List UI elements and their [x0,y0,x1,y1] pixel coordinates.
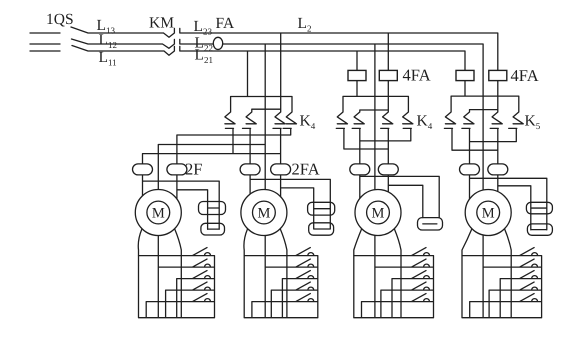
svg-text:M: M [482,205,495,221]
svg-text:1QS: 1QS [46,11,74,28]
svg-text:M: M [152,205,165,221]
svg-text:M: M [372,205,385,221]
svg-text:M: M [257,205,270,221]
svg-text:4FA: 4FA [403,66,431,85]
svg-text:KM: KM [149,15,174,32]
svg-text:4FA: 4FA [511,66,539,85]
svg-text:FA: FA [216,15,235,32]
svg-text:2FA: 2FA [292,160,320,179]
svg-text:2F: 2F [185,160,202,179]
